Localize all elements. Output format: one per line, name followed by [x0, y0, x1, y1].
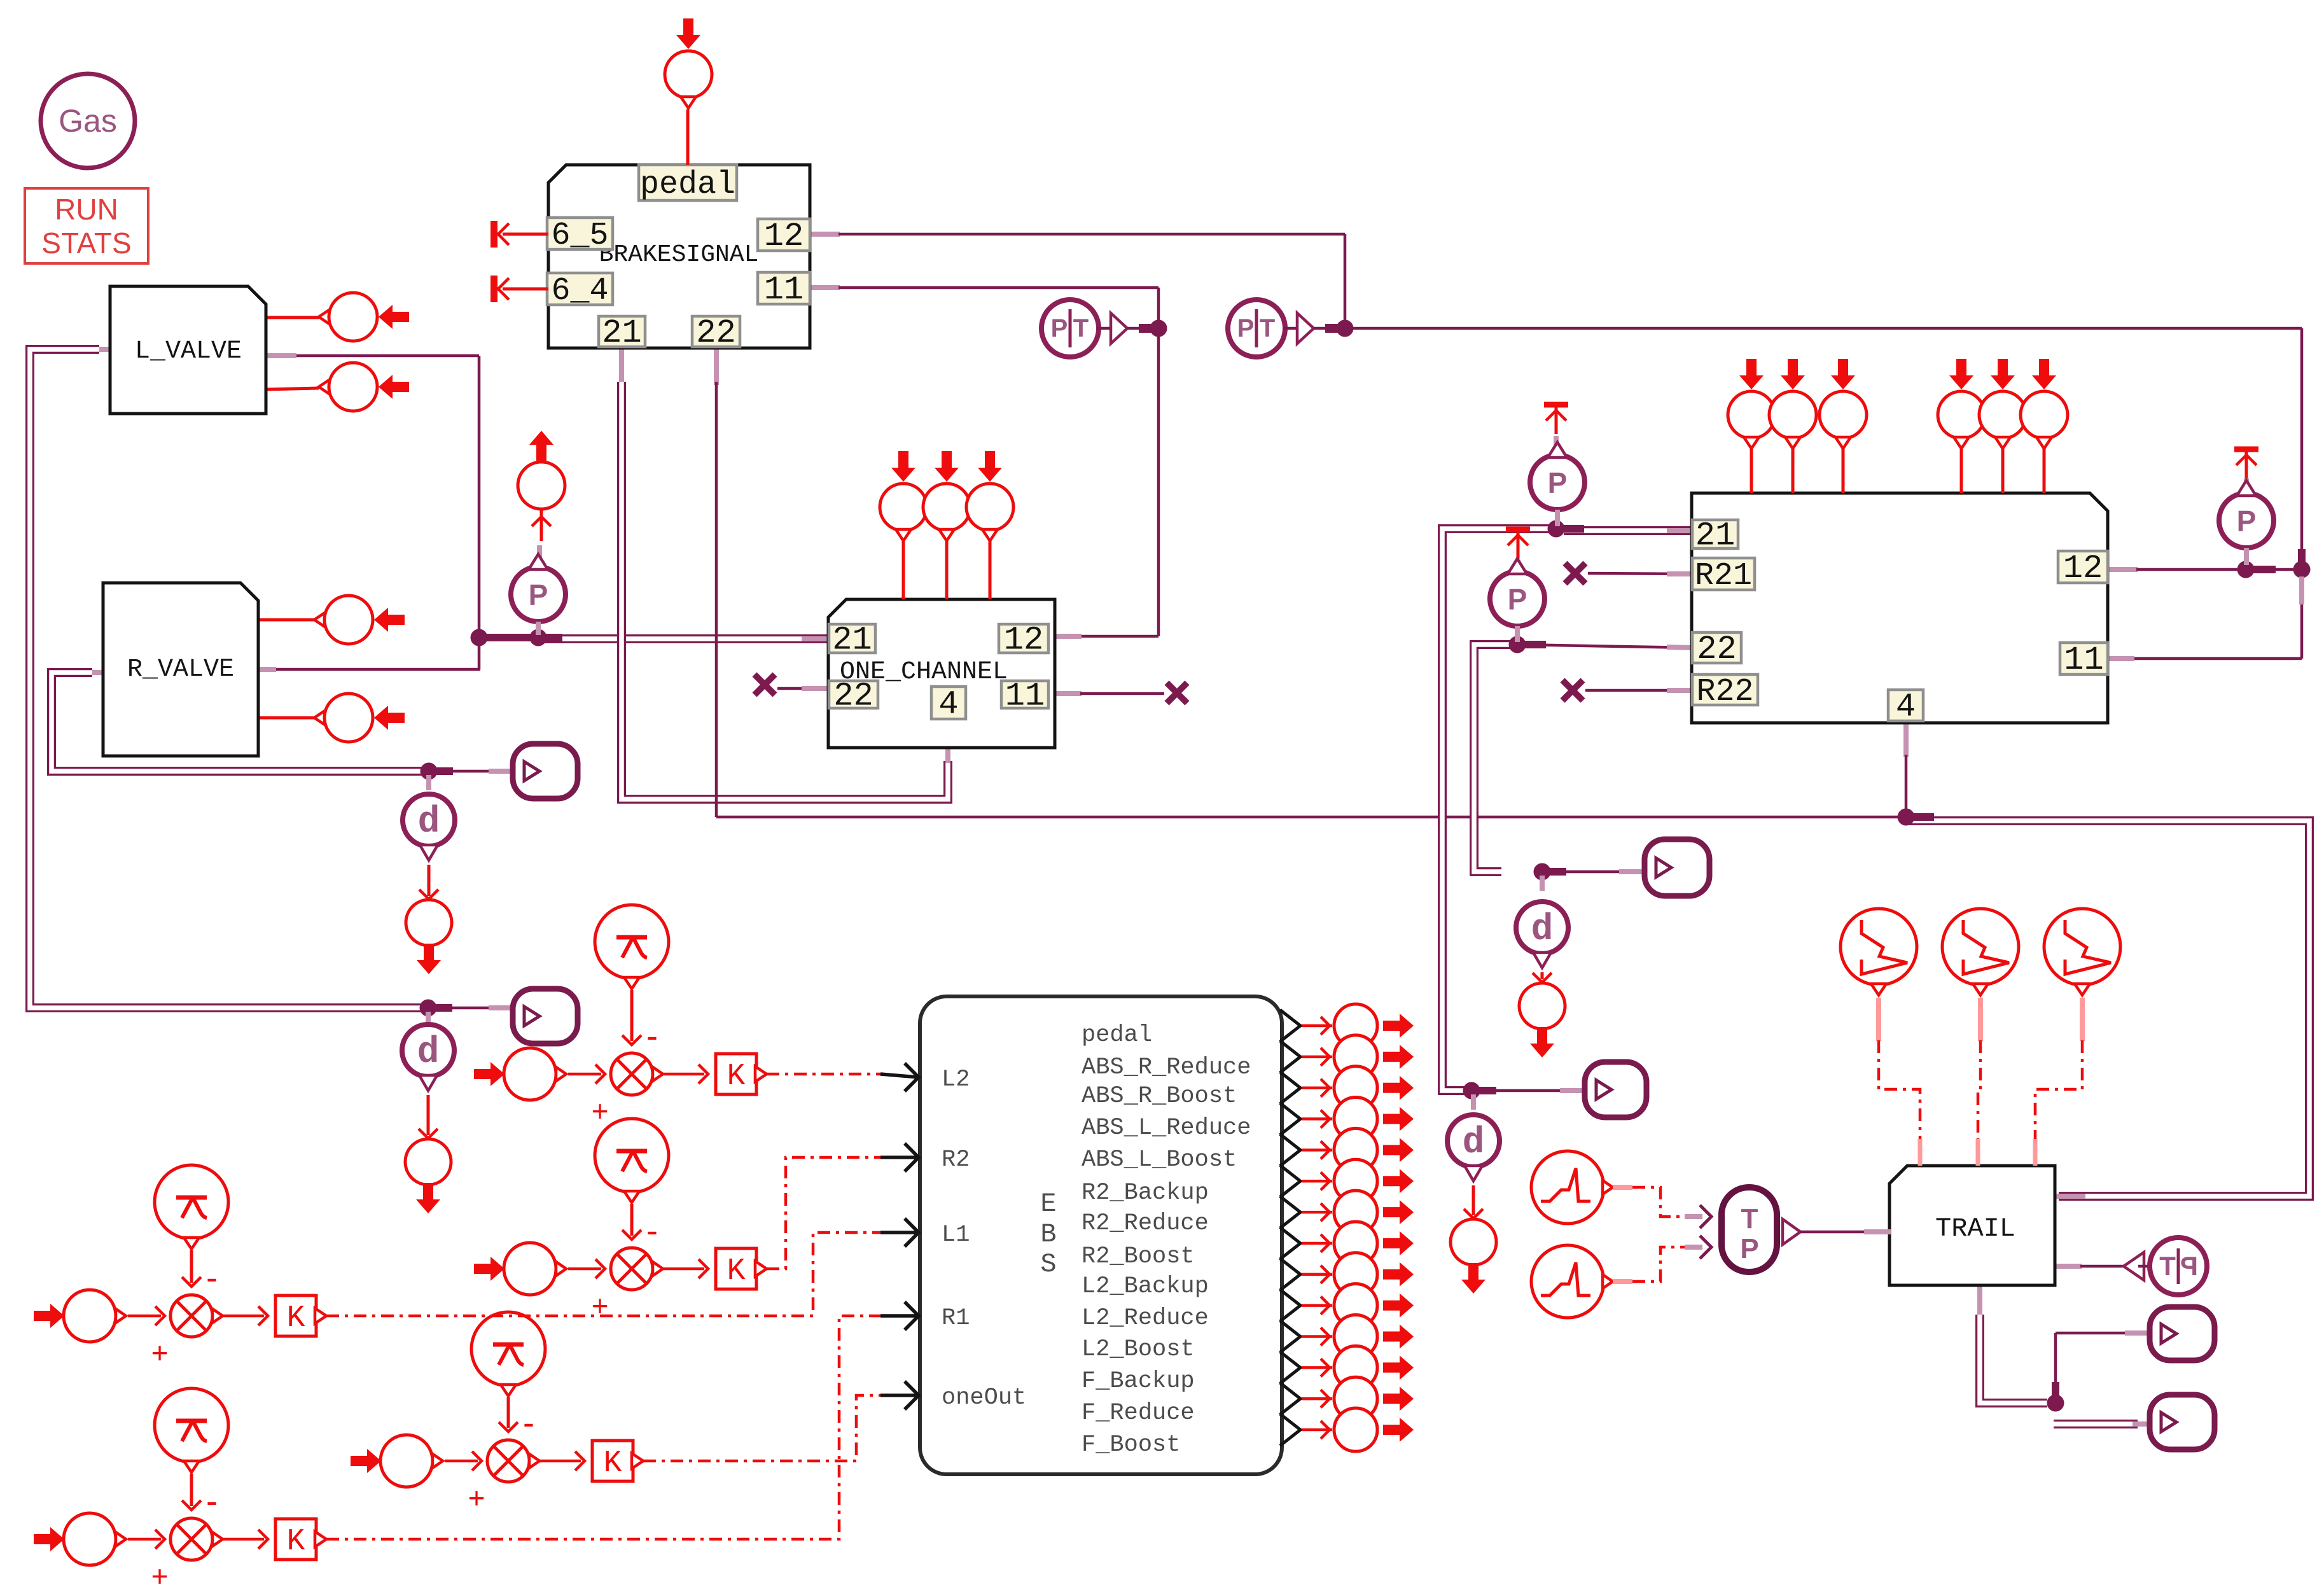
svg-text:pedal: pedal — [1082, 1022, 1152, 1049]
gain chain B — [474, 1119, 767, 1322]
svg-text:K: K — [287, 1525, 305, 1559]
block R_VALVE — [103, 583, 258, 756]
plug cross at ONE_CHANNEL port 11 — [1167, 683, 1187, 703]
step source 2 above TRAIL — [1942, 909, 2019, 1166]
step source 3 above TRAIL — [2035, 909, 2120, 1166]
junction node below gauge P1 — [530, 629, 563, 646]
signal wire chain D to EBS R1 — [326, 1302, 919, 1539]
port label pedal — [639, 165, 737, 203]
source 5 on module — [1979, 359, 2026, 493]
port label 22 of BRAKESIGNAL — [692, 314, 740, 352]
svg-text:-: - — [646, 1211, 658, 1250]
plug cross at module port R22 — [1562, 680, 1583, 701]
wire module port 12 to gauge P4 node — [2108, 567, 2302, 572]
svg-text:F_Reduce: F_Reduce — [1082, 1400, 1195, 1427]
svg-text:R1: R1 — [942, 1305, 970, 1332]
port label 11 of BRAKESIGNAL — [758, 271, 810, 309]
pipe TRAIL bottom port to tap node E — [1980, 1285, 2047, 1403]
svg-text:T: T — [1260, 314, 1275, 342]
pipe BRAKESIGNAL port 21 to ONE_CHANNEL port 4 — [622, 348, 948, 799]
port label 22 of module — [1692, 631, 1741, 668]
monitor play3 — [1645, 839, 1709, 896]
svg-text:P: P — [1740, 1233, 1758, 1264]
EBS output sink 14 — [1302, 1408, 1414, 1451]
tap node E — [2047, 1382, 2064, 1412]
sink at L_VALVE port 1 — [319, 293, 409, 341]
monitor play2 — [513, 989, 578, 1044]
port label 6_5 — [547, 218, 613, 254]
gain chain C — [34, 1165, 326, 1369]
sink at R_VALVE port 4 — [314, 694, 405, 742]
plug cross at module port R21 — [1565, 563, 1585, 583]
sink at L_VALVE port 4 — [319, 363, 409, 411]
source 1 on ONE_CHANNEL — [880, 451, 927, 599]
svg-text:K: K — [287, 1301, 305, 1336]
sink arrow at BRAKESIGNAL 6_5 — [491, 221, 548, 248]
block BRAKESIGNAL — [548, 165, 810, 348]
EBS output sink 12 — [1302, 1346, 1414, 1389]
EBS output sink 6 — [1302, 1159, 1414, 1203]
port label 21 of BRAKESIGNAL — [599, 314, 645, 352]
EBS output sink 11 — [1302, 1315, 1414, 1358]
pulse source 2 — [1531, 1245, 1702, 1318]
wire tap node E to monitor play5 — [2056, 1333, 2150, 1382]
pulse source 1 — [1531, 1151, 1702, 1224]
svg-text:-: - — [206, 1482, 218, 1520]
gauge P4 pressure sensor — [2219, 449, 2274, 565]
signal wire chain B to EBS R2 — [767, 1143, 919, 1269]
svg-text:ABS_R_Reduce: ABS_R_Reduce — [1082, 1054, 1251, 1081]
port label R21 of module — [1692, 558, 1755, 594]
wire PT2 node to module port 11 — [1345, 328, 2302, 659]
signal wire chain C to EBS L1 — [326, 1218, 919, 1316]
svg-text:K: K — [604, 1446, 622, 1481]
sink arrow at BRAKESIGNAL 6_4 — [491, 276, 548, 302]
svg-text:L2_Backup: L2_Backup — [1082, 1273, 1209, 1300]
gain chain A — [474, 905, 767, 1128]
svg-text:B: B — [1040, 1219, 1056, 1250]
svg-text:L2_Reduce: L2_Reduce — [1082, 1305, 1209, 1332]
node below gauge P3 — [1509, 636, 1547, 653]
wire plug to module port R22 — [1585, 689, 1692, 692]
port label 6_4 — [547, 273, 613, 309]
gain chain D — [34, 1388, 326, 1592]
gauge P2 pressure sensor — [1530, 405, 1585, 526]
svg-text:R2_Boost: R2_Boost — [1082, 1243, 1195, 1270]
pipe from R_VALVE port 3 to tap node A — [52, 673, 425, 771]
EBS output sink 10 — [1302, 1284, 1414, 1327]
wire plug to module port R21 — [1588, 573, 1692, 574]
svg-text:K: K — [727, 1059, 746, 1094]
EBS output sink 8 — [1302, 1222, 1414, 1265]
signal wire chain A to EBS L2 — [767, 1063, 919, 1091]
EBS output sink 5 — [1302, 1128, 1414, 1171]
converter TP — [1700, 1187, 1891, 1272]
wire R_VALVE port 1 to sink 3 — [258, 618, 314, 622]
svg-text:ABS_L_Reduce: ABS_L_Reduce — [1082, 1115, 1251, 1142]
monitor play5 — [2150, 1307, 2215, 1360]
pipe tap node E to monitor play6 — [2054, 1420, 2150, 1428]
svg-text:11: 11 — [2064, 641, 2103, 679]
RUN STATS button — [25, 188, 148, 263]
svg-text:P: P — [2237, 505, 2257, 538]
svg-text:STATS: STATS — [41, 227, 131, 260]
instrumentation icon Gas — [41, 74, 135, 168]
block TRAIL — [1889, 1166, 2055, 1285]
svg-text:oneOut: oneOut — [942, 1385, 1026, 1411]
wire BRAKESIGNAL port 22 to module port 4 node — [716, 348, 1905, 817]
svg-text:12: 12 — [2063, 550, 2103, 587]
monitor play1 — [513, 744, 578, 799]
pipe module port 4 node to TRAIL right port — [1909, 821, 2309, 1196]
svg-text:L1: L1 — [942, 1222, 970, 1248]
svg-text:P: P — [2180, 1251, 2198, 1281]
port label 21 of ONE_CHANNEL — [829, 622, 875, 659]
svg-text:d: d — [417, 1032, 440, 1073]
svg-text:d: d — [418, 802, 440, 843]
pipe gauge P2 node to tap node D — [1442, 529, 1552, 1091]
svg-text:P: P — [1051, 314, 1068, 342]
port label 4 of ONE_CHANNEL — [931, 686, 966, 723]
wire R_VALVE port 2 to junction — [258, 667, 480, 672]
wire module port 4 down to node — [1903, 721, 1909, 817]
sink at R_VALVE port 1 — [314, 596, 405, 644]
wire tap node D to monitor play4 — [1463, 1082, 1585, 1100]
svg-text:R2: R2 — [942, 1147, 970, 1173]
svg-text:T: T — [1073, 314, 1089, 342]
port label 12 of ONE_CHANNEL — [999, 622, 1048, 659]
port label 11 of ONE_CHANNEL — [1001, 678, 1048, 715]
source 3 on module — [1820, 359, 1867, 493]
wire P3 node to module port 22 — [1517, 645, 1692, 648]
svg-text:F_Boost: F_Boost — [1082, 1432, 1180, 1458]
EBS output sink 2 — [1302, 1035, 1414, 1079]
svg-text:21: 21 — [1695, 517, 1735, 555]
source 4 on module — [1938, 359, 1985, 493]
svg-text:L2_Boost: L2_Boost — [1082, 1336, 1195, 1363]
wire P2 node to module port 21 — [1564, 526, 1692, 535]
svg-text:R21: R21 — [1695, 558, 1752, 594]
source 2 on module — [1769, 359, 1816, 493]
node at right riser — [2293, 549, 2311, 604]
svg-text:BRAKESIGNAL: BRAKESIGNAL — [599, 241, 759, 269]
svg-text:-: - — [206, 1259, 218, 1297]
pipe gauge P3 node to tap node C — [1474, 645, 1514, 872]
svg-text:T: T — [1741, 1203, 1758, 1234]
port label 12 of module — [2058, 550, 2108, 587]
source 2 on ONE_CHANNEL — [923, 451, 970, 599]
wire L_VALVE port 2 to junction — [266, 356, 479, 669]
port label 4 of module — [1888, 688, 1923, 726]
svg-text:L_VALVE: L_VALVE — [135, 337, 242, 366]
svg-text:d: d — [1531, 909, 1554, 951]
derivative tap d3 — [1516, 876, 1568, 1058]
wire tap node B to monitor play2 — [420, 1000, 513, 1017]
gauge PT1 pressure-temperature sensor — [1041, 300, 1167, 357]
svg-text:ABS_R_Boost: ABS_R_Boost — [1082, 1083, 1237, 1110]
source 6 on module — [2021, 359, 2068, 493]
svg-text:12: 12 — [764, 218, 804, 255]
wire BRAKESIGNAL port 11 to gauge PT1 node — [810, 288, 1159, 328]
svg-text:E: E — [1040, 1189, 1056, 1219]
svg-text:P: P — [1548, 466, 1568, 499]
monitor play6 — [2150, 1395, 2215, 1449]
svg-text:4: 4 — [1896, 688, 1916, 726]
svg-text:6_4: 6_4 — [551, 273, 608, 309]
EBS output sink 1 — [1302, 1004, 1414, 1047]
step source 1 above TRAIL — [1840, 909, 1920, 1166]
wire tap node C to monitor play3 — [1534, 863, 1645, 881]
vent source above P1 — [518, 431, 565, 541]
junction node at pressure tap — [471, 629, 503, 646]
EBS output sink 3 — [1302, 1066, 1414, 1110]
svg-text:4: 4 — [938, 686, 958, 723]
svg-text:R22: R22 — [1696, 674, 1753, 710]
gauge TP2 mirrored pressure-temperature sensor — [2124, 1238, 2207, 1295]
gauge PT2 pressure-temperature sensor — [1228, 300, 1354, 357]
svg-text:TRAIL: TRAIL — [1935, 1213, 2015, 1244]
svg-text:11: 11 — [764, 271, 804, 309]
svg-text:+: + — [592, 1094, 609, 1128]
port label 22 of ONE_CHANNEL — [829, 678, 878, 715]
wire tap node A to monitor play1 — [421, 763, 515, 780]
block two-channel module — [1692, 493, 2108, 723]
svg-text:21: 21 — [602, 314, 641, 352]
svg-text:ABS_L_Boost: ABS_L_Boost — [1082, 1147, 1237, 1173]
gain chain E — [351, 1312, 643, 1514]
svg-text:pedal: pedal — [640, 167, 735, 203]
svg-text:L2: L2 — [942, 1066, 970, 1093]
svg-text:P: P — [1508, 583, 1527, 616]
wire L_VALVE port 1 to sink 1 — [266, 316, 319, 319]
svg-text:K: K — [727, 1254, 746, 1288]
svg-text:+: + — [151, 1560, 169, 1589]
EBS output sink 7 — [1302, 1191, 1414, 1234]
svg-text:P: P — [529, 578, 548, 611]
svg-text:+: + — [151, 1336, 169, 1369]
svg-text:RUN: RUN — [55, 193, 118, 226]
gauge P1 pressure sensor — [511, 545, 566, 635]
svg-text:R2_Backup: R2_Backup — [1082, 1180, 1209, 1206]
wire ONE_CHANNEL port 11 to plug — [1055, 691, 1164, 696]
svg-text:R_VALVE: R_VALVE — [127, 655, 234, 684]
source 1 on module — [1728, 359, 1775, 493]
EBS output sink 9 — [1302, 1253, 1414, 1296]
gauge P3 pressure sensor — [1490, 529, 1545, 642]
plug cross at ONE_CHANNEL port 22 — [755, 674, 775, 695]
derivative tap d1 — [403, 775, 455, 974]
source 3 on ONE_CHANNEL — [966, 451, 1013, 599]
svg-text:21: 21 — [832, 622, 872, 659]
pipe from L_VALVE port 3 to tap node B — [30, 349, 425, 1008]
port label 11 of module — [2060, 641, 2108, 679]
EBS output sink 4 — [1302, 1098, 1414, 1141]
svg-text:Gas: Gas — [59, 103, 117, 139]
monitor play4 — [1585, 1062, 1646, 1117]
block ONE_CHANNEL — [828, 599, 1055, 748]
wire TRAIL port to gauge TP2 triangle — [2055, 1264, 2124, 1269]
node below module port 4 — [1898, 809, 1935, 826]
svg-text:12: 12 — [1004, 622, 1043, 659]
svg-text:6_5: 6_5 — [551, 218, 608, 254]
svg-text:S: S — [1040, 1249, 1056, 1280]
source pedal signal — [665, 18, 712, 165]
svg-text:22: 22 — [1697, 631, 1736, 668]
block EBS controller — [920, 996, 1300, 1474]
EBS output sink 13 — [1302, 1377, 1414, 1420]
wire BRAKESIGNAL port 12 to gauge PT2 node — [810, 234, 1345, 328]
node below gauge P2 — [1548, 520, 1585, 538]
svg-text:T: T — [2159, 1251, 2176, 1281]
svg-text:11: 11 — [1005, 678, 1045, 715]
svg-text:P: P — [1237, 314, 1255, 342]
svg-text:d: d — [1463, 1122, 1485, 1164]
port label R22 of module — [1692, 674, 1758, 710]
block L_VALVE — [110, 286, 266, 414]
derivative tap d4 — [1447, 1094, 1499, 1294]
svg-text:-: - — [523, 1404, 534, 1442]
svg-text:22: 22 — [696, 314, 735, 352]
svg-text:+: + — [468, 1481, 485, 1514]
wire L_VALVE port 4 to sink 2 — [266, 388, 319, 389]
svg-text:-: - — [646, 1017, 658, 1055]
port label 21 of module — [1692, 517, 1738, 555]
wire junction to ONE_CHANNEL port 21 — [481, 638, 828, 639]
svg-text:F_Backup: F_Backup — [1082, 1368, 1195, 1395]
node on module port 12 wire — [2237, 561, 2276, 578]
port label 12 of BRAKESIGNAL — [758, 218, 810, 255]
signal wire chain E to EBS oneOut — [643, 1381, 919, 1461]
wire R_VALVE port 4 to sink 4 — [258, 716, 314, 720]
wire plug to ONE_CHANNEL port 22 — [777, 687, 828, 690]
svg-text:R2_Reduce: R2_Reduce — [1082, 1210, 1209, 1237]
svg-text:22: 22 — [833, 678, 873, 715]
derivative tap d2 — [402, 1012, 454, 1213]
wire PT1 node to ONE_CHANNEL port 12 — [1055, 328, 1159, 636]
